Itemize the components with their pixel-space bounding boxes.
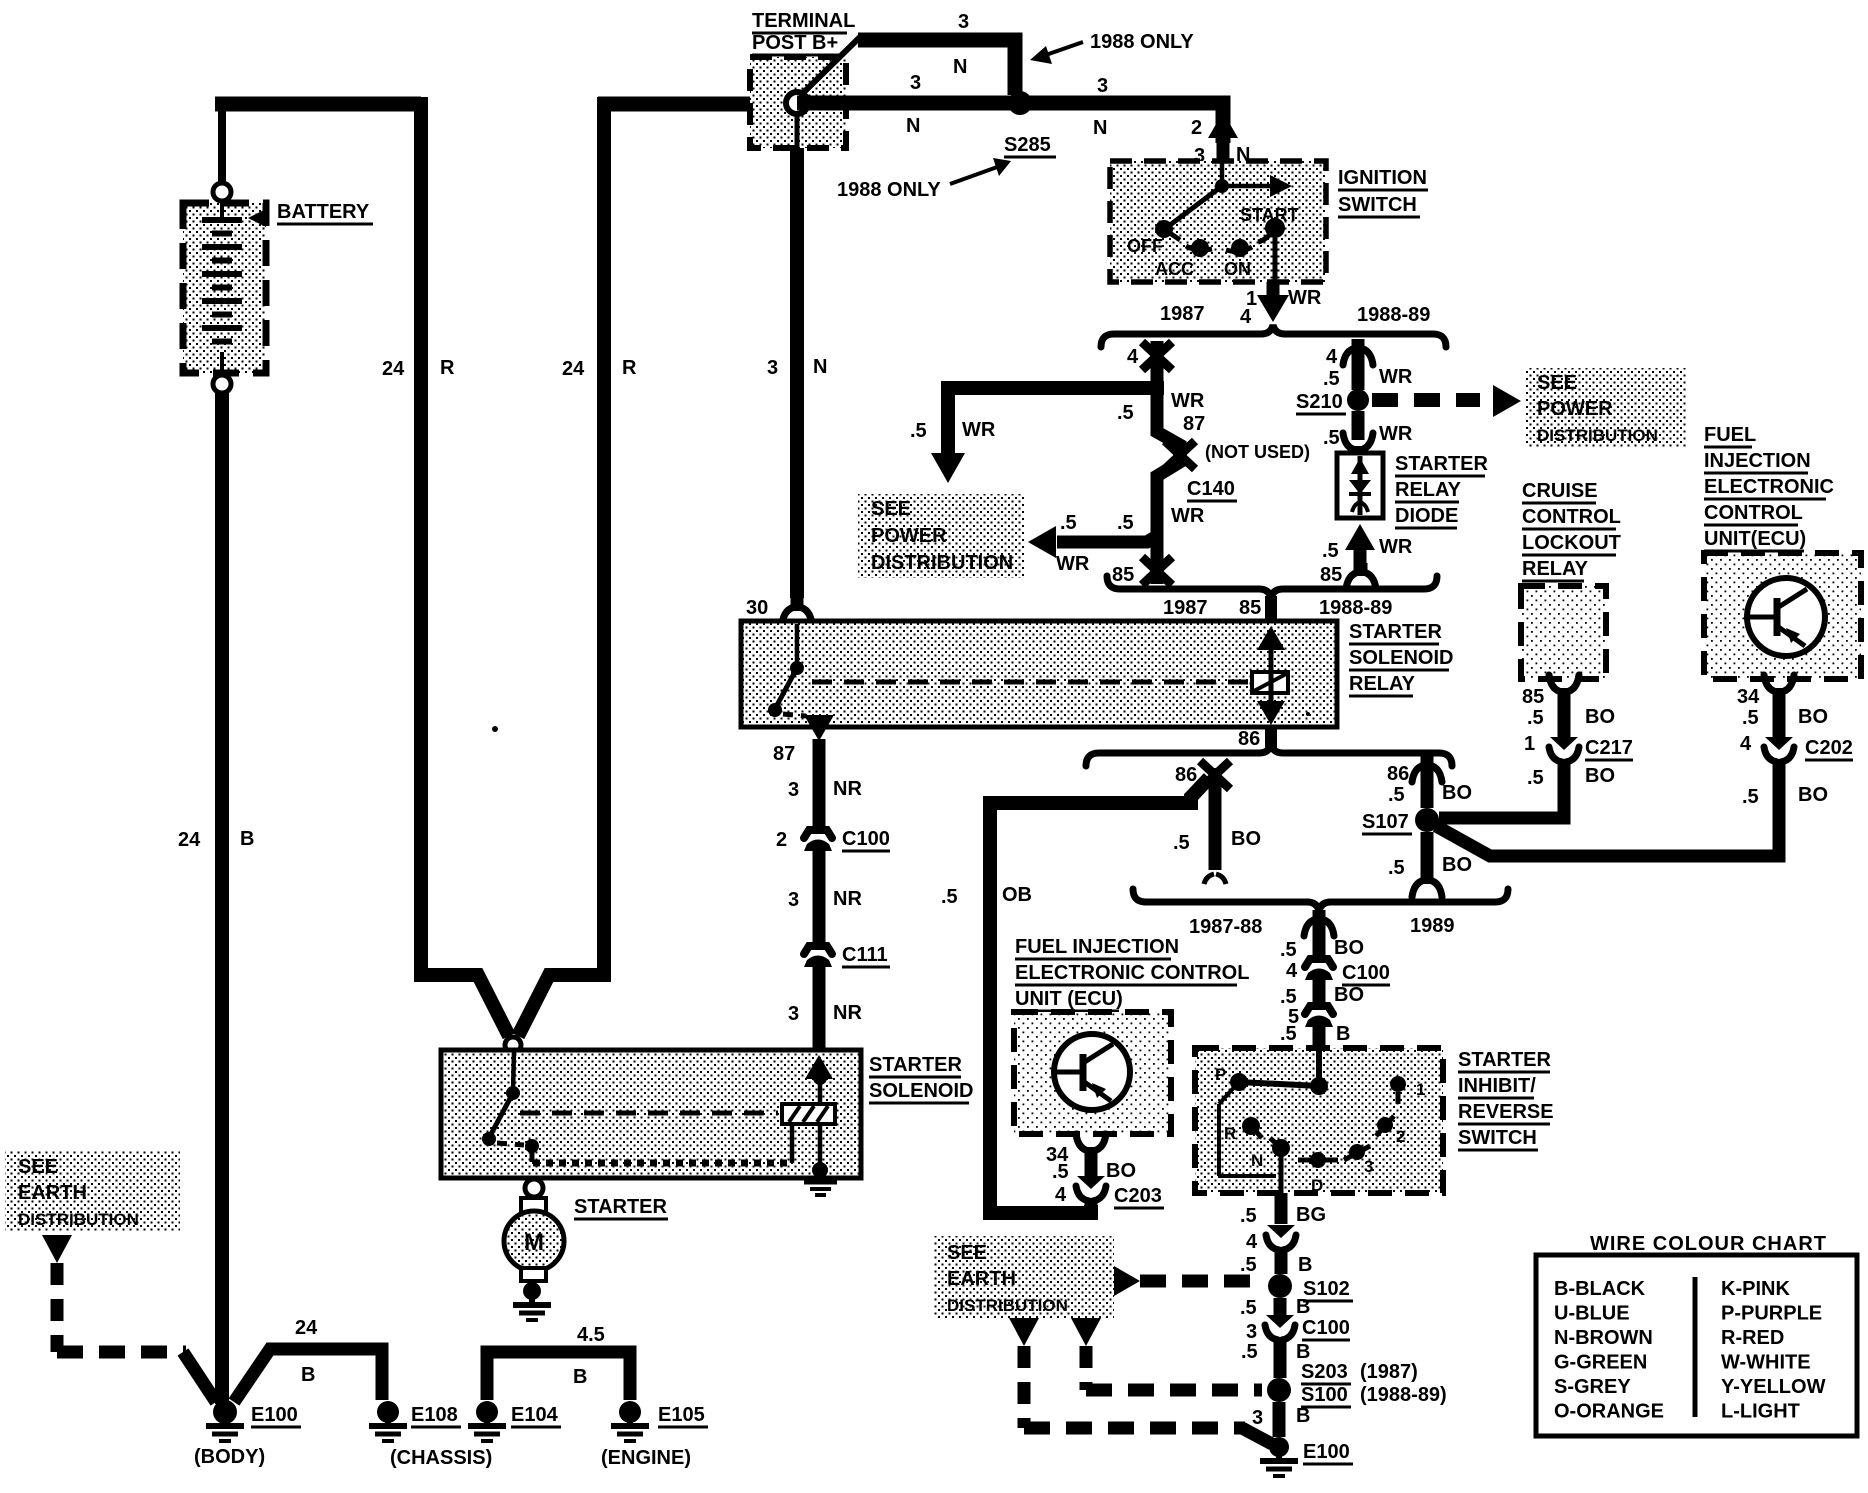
svg-text:85: 85 [1239, 597, 1261, 619]
svg-text:REVERSE: REVERSE [1458, 1101, 1554, 1123]
split bracket 86 [1086, 728, 1452, 766]
svg-text:K-PINK: K-PINK [1721, 1278, 1790, 1300]
svg-text:C111: C111 [842, 944, 888, 966]
svg-text:ELECTRONIC: ELECTRONIC [1704, 476, 1834, 498]
svg-text:(CHASSIS): (CHASSIS) [390, 1447, 492, 1469]
svg-text:POWER: POWER [1537, 398, 1613, 420]
wire to S102 (.5 B) [1240, 1254, 1312, 1276]
merge bracket 1987-88 / 1989 [1133, 889, 1508, 938]
svg-text:N: N [813, 356, 827, 378]
svg-text:STARTER: STARTER [869, 1054, 963, 1076]
svg-text:SEE: SEE [1537, 372, 1577, 394]
starter solenoid L1 [441, 1050, 861, 1195]
svg-text:(1987): (1987) [1360, 1361, 1418, 1383]
svg-text:.5: .5 [1241, 1341, 1258, 1363]
dashed wire S210 to power distribution [1372, 385, 1521, 417]
svg-text:O-ORANGE: O-ORANGE [1554, 1401, 1664, 1423]
svg-text:BO: BO [1334, 937, 1364, 959]
svg-text:24: 24 [562, 358, 585, 380]
svg-text:WR: WR [1056, 553, 1090, 575]
svg-text:B: B [1296, 1296, 1310, 1318]
wire E104 to E105 (4.5 B) [487, 1324, 630, 1400]
svg-text:WR: WR [1379, 423, 1413, 445]
ignition switch [1110, 161, 1326, 282]
svg-text:N-BROWN: N-BROWN [1554, 1327, 1653, 1349]
wire terminal post B+ to starter solenoid (24 R) [518, 97, 752, 1036]
svg-text:R-RED: R-RED [1721, 1327, 1784, 1349]
fuel injection ECU U1 [1704, 553, 1861, 679]
svg-text:(1988-89): (1988-89) [1360, 1384, 1447, 1406]
ground E100 (body) [194, 1400, 301, 1468]
wire S102 to C100 (.5 B) [1240, 1296, 1310, 1319]
stray mark [492, 712, 1310, 732]
svg-text:85: 85 [1112, 564, 1134, 586]
svg-text:STARTER: STARTER [1458, 1049, 1552, 1071]
starter solenoid relay K1 [741, 621, 1337, 741]
connector C217 pin 1 [1524, 733, 1633, 770]
svg-text:3: 3 [1252, 1407, 1263, 1429]
svg-text:B: B [1298, 1254, 1312, 1276]
merge bracket 1987 85 1988-89 [1107, 576, 1437, 619]
svg-text:BO: BO [1334, 984, 1364, 1006]
svg-text:C202: C202 [1805, 737, 1853, 759]
label 1988 ONLY (lower) [837, 158, 1011, 201]
splice S285 [1004, 91, 1056, 157]
label STARTER SOLENOID RELAY [1349, 621, 1453, 696]
wire E100 to E108 (24 B) [234, 1317, 382, 1402]
svg-text:NR: NR [833, 778, 862, 800]
svg-text:S203: S203 [1301, 1361, 1348, 1383]
connector C100 pin 2 [776, 828, 890, 851]
svg-text:.5: .5 [1388, 784, 1405, 806]
svg-text:E105: E105 [658, 1404, 705, 1426]
connector below 1989 bracket [1280, 910, 1364, 961]
svg-text:C217: C217 [1585, 737, 1633, 759]
svg-text:1: 1 [1416, 1080, 1425, 1099]
svg-text:INJECTION: INJECTION [1704, 450, 1811, 472]
connector C100 pin 3 (B) [1246, 1315, 1350, 1348]
dashed earth wire to E100 (right) [1009, 1318, 1272, 1444]
svg-text:1987-88: 1987-88 [1189, 916, 1262, 938]
svg-text:STARTER: STARTER [574, 1196, 668, 1218]
wire C100 to C111 (3 NR) [788, 850, 862, 944]
svg-text:1988 ONLY: 1988 ONLY [1090, 31, 1194, 53]
svg-text:UNIT(ECU): UNIT(ECU) [1704, 528, 1806, 550]
svg-text:BO: BO [1442, 782, 1472, 804]
wire battery negative (24 B) [178, 393, 254, 1404]
svg-text:86: 86 [1238, 728, 1260, 750]
svg-text:.5: .5 [910, 420, 927, 442]
svg-text:.5: .5 [1388, 857, 1405, 879]
svg-text:.5: .5 [941, 886, 958, 908]
connector cruise 85 [1522, 675, 1579, 708]
svg-text:B: B [573, 1366, 587, 1388]
svg-text:P-PURPLE: P-PURPLE [1721, 1303, 1822, 1325]
ground E104 [468, 1401, 561, 1441]
svg-text:EARTH: EARTH [18, 1182, 87, 1204]
connector C100 pin 4 (BO) [1286, 959, 1390, 985]
connector ECU 34 [1737, 675, 1794, 708]
svg-text:1: 1 [1524, 733, 1535, 755]
svg-text:.5: .5 [1742, 786, 1759, 808]
svg-text:C100: C100 [842, 828, 890, 850]
svg-text:DISTRIBUTION: DISTRIBUTION [18, 1210, 139, 1229]
svg-text:BO: BO [1798, 706, 1828, 728]
svg-text:BO: BO [1585, 765, 1615, 787]
svg-text:24: 24 [382, 358, 405, 380]
label CRUISE CONTROL LOCKOUT RELAY [1522, 480, 1621, 581]
svg-text:3: 3 [788, 889, 799, 911]
svg-text:N: N [1093, 117, 1107, 139]
connector C111 [804, 944, 890, 967]
label FUEL INJECTION ECU (bottom) [1015, 936, 1249, 1011]
svg-text:S107: S107 [1362, 811, 1409, 833]
svg-text:.5: .5 [1280, 939, 1297, 961]
gray note SEE EARTH DISTRIBUTION (left) [5, 1150, 180, 1232]
label STARTER SOLENOID [869, 1054, 973, 1103]
svg-text:INHIBIT/: INHIBIT/ [1458, 1075, 1536, 1097]
cruise control lockout relay K2 [1521, 586, 1606, 679]
svg-text:4.5: 4.5 [577, 1324, 605, 1346]
svg-text:.5: .5 [1240, 1297, 1257, 1319]
dashed earth wire to E100 (left) [42, 1235, 216, 1402]
svg-text:E108: E108 [411, 1404, 458, 1426]
svg-text:86: 86 [1175, 764, 1197, 786]
svg-text:S-GREY: S-GREY [1554, 1376, 1631, 1398]
label STARTER [574, 1196, 668, 1219]
svg-text:3: 3 [1097, 75, 1108, 97]
svg-text:WR: WR [1379, 536, 1413, 558]
svg-text:.5: .5 [1742, 707, 1759, 729]
svg-text:FUEL INJECTION: FUEL INJECTION [1015, 936, 1179, 958]
starter inhibit reverse switch S1 [1195, 1048, 1443, 1195]
svg-text:30: 30 [746, 597, 768, 619]
svg-text:4: 4 [1240, 306, 1252, 328]
svg-text:DISTRIBUTION: DISTRIBUTION [947, 1296, 1068, 1315]
svg-text:.5: .5 [1527, 767, 1544, 789]
svg-text:SEE: SEE [871, 498, 911, 520]
svg-text:4: 4 [1326, 346, 1338, 368]
svg-text:4: 4 [1246, 1231, 1258, 1253]
svg-text:OFF: OFF [1127, 236, 1163, 256]
svg-text:3: 3 [958, 11, 969, 33]
svg-text:POST B+: POST B+ [752, 32, 838, 54]
wire 85 into relay [1265, 596, 1277, 749]
svg-text:WR: WR [1171, 390, 1205, 412]
svg-text:.5: .5 [1527, 707, 1544, 729]
wire 1988-only bypass (3 N) [858, 11, 1015, 95]
svg-text:D: D [1311, 1176, 1323, 1195]
svg-text:3: 3 [767, 357, 778, 379]
svg-text:R: R [440, 357, 455, 379]
svg-text:4: 4 [1286, 960, 1298, 982]
svg-text:B: B [1336, 1023, 1350, 1045]
wire 86 to S107 (.5 BO) [1388, 769, 1472, 808]
label C140 [1187, 478, 1237, 501]
svg-text:.5: .5 [1323, 368, 1340, 390]
svg-text:N: N [953, 56, 967, 78]
svg-text:SWITCH: SWITCH [1458, 1127, 1537, 1149]
dashed wire earth to S102 [1114, 1266, 1263, 1296]
svg-text:B: B [1296, 1405, 1310, 1427]
svg-text:1987: 1987 [1163, 597, 1208, 619]
svg-text:.5: .5 [1240, 1254, 1257, 1276]
svg-text:FUEL: FUEL [1704, 424, 1756, 446]
svg-text:IGNITION: IGNITION [1338, 167, 1427, 189]
connector pin 4 (1988-89) [1323, 339, 1413, 390]
svg-text:Y-YELLOW: Y-YELLOW [1721, 1376, 1826, 1398]
wire C140 87 not used [1117, 388, 1310, 530]
gray note SEE EARTH DISTRIBUTION (right) [934, 1236, 1114, 1318]
svg-text:.5: .5 [1323, 427, 1340, 449]
connector C203 pin 4 [1055, 1176, 1164, 1209]
connector C140 pin 4 (1987) [1127, 341, 1172, 388]
svg-text:CRUISE: CRUISE [1522, 480, 1598, 502]
starter motor M1 [504, 1179, 564, 1320]
svg-text:C100: C100 [1342, 962, 1390, 984]
svg-text:OB: OB [1002, 884, 1032, 906]
svg-text:B: B [240, 828, 254, 850]
split bracket 1987 / 1988-89 [1101, 303, 1446, 347]
svg-text:87: 87 [1183, 413, 1205, 435]
wire C100 to S100 (.5 B) [1241, 1341, 1310, 1378]
svg-text:.5: .5 [1052, 1161, 1069, 1183]
label TERMINAL POST B+ [752, 10, 855, 55]
svg-text:LOCKOUT: LOCKOUT [1522, 532, 1621, 554]
svg-text:BATTERY: BATTERY [277, 201, 370, 223]
ground E108 (chassis) [369, 1401, 492, 1469]
terminal post B+ [750, 36, 861, 148]
wire S100 to E100 (3 B) [1252, 1402, 1310, 1437]
svg-text:S100: S100 [1301, 1384, 1348, 1406]
svg-text:WR: WR [1379, 366, 1413, 388]
svg-text:3: 3 [1246, 1321, 1257, 1343]
svg-text:ACC: ACC [1155, 259, 1194, 279]
wire OB branch [941, 778, 1209, 1213]
svg-text:.5: .5 [1240, 1205, 1257, 1227]
svg-text:E100: E100 [1303, 1441, 1350, 1463]
svg-text:.5: .5 [1060, 512, 1077, 534]
svg-text:B: B [301, 1364, 315, 1386]
svg-text:WR: WR [1171, 505, 1205, 527]
svg-text:.5: .5 [1117, 512, 1134, 534]
connector 86 (1989 branch) [1387, 756, 1442, 785]
svg-text:85: 85 [1320, 564, 1342, 586]
svg-text:4: 4 [1740, 733, 1752, 755]
svg-text:N: N [1251, 1151, 1263, 1170]
wire relay 87 to C100 (3 NR) [788, 739, 862, 828]
svg-text:STARTER: STARTER [1349, 621, 1443, 643]
wire S107 down (.5 BO) [1388, 832, 1472, 897]
svg-text:E100: E100 [251, 1404, 298, 1426]
wire WR to power distribution (upper left) [910, 381, 1157, 483]
gray note SEE POWER DISTRIBUTION (right) [1526, 368, 1686, 448]
svg-text:W-WHITE: W-WHITE [1721, 1352, 1811, 1374]
svg-text:24: 24 [178, 829, 201, 851]
wire into inhibit switch (.5 B) [1280, 1023, 1350, 1085]
svg-text:S210: S210 [1296, 391, 1343, 413]
ground E105 (engine) [601, 1401, 708, 1469]
svg-text:(ENGINE): (ENGINE) [601, 1447, 691, 1469]
svg-text:WIRE COLOUR CHART: WIRE COLOUR CHART [1590, 1233, 1827, 1255]
connector C140 pin 85 (1987) [1112, 505, 1205, 586]
wire terminal post to ignition switch (3 N) [797, 72, 1250, 167]
splice S210 [1296, 389, 1369, 414]
splice S107 [1362, 808, 1439, 834]
svg-text:BO: BO [1585, 706, 1615, 728]
svg-text:1988-89: 1988-89 [1357, 304, 1430, 326]
svg-text:POWER: POWER [871, 525, 947, 547]
svg-text:NR: NR [833, 888, 862, 910]
svg-text:CONTROL: CONTROL [1704, 502, 1803, 524]
starter relay diode D1 [1337, 453, 1383, 518]
wire ECU to C202 (.5 BO) [1742, 698, 1828, 737]
svg-text:DISTRIBUTION: DISTRIBUTION [871, 552, 1013, 574]
svg-text:BO: BO [1231, 828, 1261, 850]
svg-text:1988-89: 1988-89 [1319, 597, 1392, 619]
svg-text:START: START [1240, 205, 1299, 225]
svg-text:BO: BO [1106, 1160, 1136, 1182]
svg-text:.5: .5 [1322, 540, 1339, 562]
svg-text:B-BLACK: B-BLACK [1554, 1278, 1646, 1300]
label IGNITION SWITCH [1338, 167, 1428, 217]
svg-text:85: 85 [1522, 686, 1544, 708]
wire C111 to starter solenoid (3 NR) [788, 966, 862, 1052]
svg-text:1988 ONLY: 1988 ONLY [837, 179, 941, 201]
svg-text:DIODE: DIODE [1395, 505, 1458, 527]
svg-text:R: R [622, 357, 637, 379]
svg-text:.5: .5 [1173, 832, 1190, 854]
svg-text:SEE: SEE [947, 1242, 987, 1264]
svg-text:BO: BO [1442, 854, 1472, 876]
gray note SEE POWER DISTRIBUTION (middle) [858, 494, 1025, 578]
connector 86 (1987-88 branch) [1175, 761, 1230, 789]
wire ignition start output (1 WR) [1240, 238, 1322, 328]
svg-text:2: 2 [1191, 117, 1202, 139]
svg-text:(NOT USED): (NOT USED) [1205, 442, 1310, 462]
svg-text:TERMINAL: TERMINAL [752, 10, 855, 32]
svg-text:G-GREEN: G-GREEN [1554, 1352, 1647, 1374]
wire S210 to diode (.5 WR) [1323, 411, 1413, 459]
svg-text:M: M [524, 1229, 544, 1256]
wire inhibit to connector (.5 BG) [1240, 1193, 1326, 1227]
svg-text:1987: 1987 [1160, 303, 1205, 325]
svg-text:WR: WR [1288, 287, 1322, 309]
wire C202 to S107 (.5 BO) [1436, 769, 1828, 856]
svg-text:24: 24 [295, 1317, 318, 1339]
wire 86 to OB (.5 BO) [1173, 768, 1261, 884]
svg-text:E104: E104 [511, 1404, 559, 1426]
svg-text:2: 2 [1396, 1127, 1405, 1146]
wire WR to power distribution (lower left) [1028, 512, 1157, 575]
svg-text:RELAY: RELAY [1349, 673, 1416, 695]
svg-text:RELAY: RELAY [1522, 558, 1589, 580]
svg-text:BO: BO [1798, 784, 1828, 806]
wire C217 to S107 (.5 BO) [1439, 765, 1615, 818]
svg-text:C140: C140 [1187, 478, 1235, 500]
svg-text:UNIT (ECU): UNIT (ECU) [1015, 988, 1123, 1010]
svg-text:1989: 1989 [1410, 915, 1455, 937]
label 1988 ONLY (top) [1030, 31, 1194, 64]
svg-text:3: 3 [788, 779, 799, 801]
dashed earth wire to S100 [1071, 1318, 1262, 1390]
svg-text:WR: WR [962, 419, 996, 441]
wire cruise to C217 (.5 BO) [1527, 698, 1615, 737]
svg-text:SOLENOID: SOLENOID [1349, 647, 1453, 669]
splice S102 [1268, 1274, 1353, 1301]
wire ECU to C203 (.5 BO) [1052, 1157, 1136, 1183]
wire colour chart [1536, 1233, 1857, 1436]
svg-text:NR: NR [833, 1002, 862, 1024]
svg-text:U-BLUE: U-BLUE [1554, 1303, 1630, 1325]
junction battery cables to solenoid [505, 1037, 521, 1053]
svg-text:SOLENOID: SOLENOID [869, 1080, 973, 1102]
svg-text:86: 86 [1387, 763, 1409, 785]
label FUEL INJECTION ECU (right) [1704, 424, 1834, 551]
fuel injection ECU U2 (bottom) [1014, 1012, 1171, 1134]
svg-text:BG: BG [1296, 1204, 1326, 1226]
ground E100 (right) [1260, 1437, 1353, 1476]
svg-text:L-LIGHT: L-LIGHT [1721, 1401, 1800, 1423]
connector ECU 34 (bottom) [1046, 1134, 1106, 1166]
wire C100 to connector (.5 BO) [1280, 979, 1364, 1008]
svg-text:C100: C100 [1302, 1317, 1350, 1339]
svg-text:34: 34 [1737, 686, 1760, 708]
label STARTER RELAY DIODE [1395, 453, 1489, 528]
label BATTERY [277, 201, 373, 224]
svg-text:4: 4 [1055, 1184, 1067, 1206]
svg-text:STARTER: STARTER [1395, 453, 1489, 475]
label 87 [773, 743, 795, 765]
label S203 (1987) [1301, 1361, 1418, 1384]
connector pin 30 [746, 597, 812, 624]
svg-text:.5: .5 [1280, 986, 1297, 1008]
svg-text:RELAY: RELAY [1395, 479, 1462, 501]
svg-text:EARTH: EARTH [947, 1268, 1016, 1290]
svg-text:S285: S285 [1004, 134, 1051, 156]
svg-text:4: 4 [1127, 346, 1139, 368]
svg-text:3: 3 [788, 1003, 799, 1025]
svg-text:B: B [1296, 1341, 1310, 1363]
svg-text:P: P [1215, 1065, 1226, 1084]
connector C202 pin 4 [1740, 733, 1853, 770]
svg-text:DISTRIBUTION: DISTRIBUTION [1537, 426, 1658, 445]
svg-text:SWITCH: SWITCH [1338, 194, 1417, 216]
svg-text:3: 3 [1364, 1157, 1373, 1176]
connector pin 4 (B) [1246, 1225, 1296, 1258]
wire diode to 85 (.5 WR) [1320, 524, 1413, 589]
svg-text:87: 87 [773, 743, 795, 765]
svg-text:2: 2 [776, 829, 787, 851]
svg-text:.5: .5 [1117, 402, 1134, 424]
svg-text:3: 3 [910, 72, 921, 94]
svg-text:C203: C203 [1114, 1185, 1162, 1207]
svg-text:SEE: SEE [18, 1156, 58, 1178]
wire terminal post vertical (3 N) [767, 148, 827, 598]
svg-text:R: R [1224, 1124, 1236, 1143]
splice S100 (1988-89) [1267, 1378, 1447, 1407]
svg-text:CONTROL: CONTROL [1522, 506, 1621, 528]
svg-text:(BODY): (BODY) [194, 1446, 265, 1468]
battery B1 [183, 183, 266, 393]
svg-text:ELECTRONIC CONTROL: ELECTRONIC CONTROL [1015, 962, 1249, 984]
connector pin 5 [1288, 1006, 1333, 1028]
svg-text:N: N [906, 115, 920, 137]
svg-text:ON: ON [1224, 259, 1251, 279]
svg-text:.5: .5 [1280, 1023, 1297, 1045]
label STARTER INHIBIT REVERSE SWITCH [1458, 1049, 1554, 1150]
wire battery positive to starter solenoid (24 R) [215, 97, 509, 1036]
